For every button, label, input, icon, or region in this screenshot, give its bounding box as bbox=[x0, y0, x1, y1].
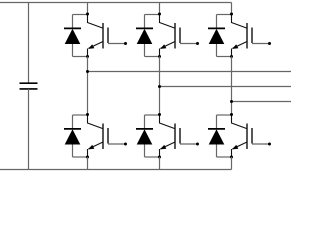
transistor Q3 gate bar bbox=[179, 28, 181, 44]
wire DC bus negative rail (bottom) bbox=[0, 169, 232, 171]
wire diode D4 cathode lead (vertical) bbox=[144, 115, 146, 129]
wire diode D1 cathode lead (vertical) bbox=[72, 15, 74, 29]
Q4 gate terminal dot bbox=[196, 143, 199, 146]
transistor Q1 gate bar bbox=[107, 28, 109, 44]
wire diode D5 anode to emitter node (horizontal) bbox=[217, 56, 232, 58]
transistor Q5 emitter arrowhead bbox=[232, 44, 238, 49]
wire leg C from positive rail to upper collector bbox=[231, 3, 233, 15]
wire diode D6 anode to emitter node (horizontal) bbox=[217, 156, 232, 158]
node Q1 emitter junction dot bbox=[86, 55, 89, 58]
transistor Q2 channel bar bbox=[102, 124, 104, 150]
transistor Q6 collector lead (vertical then diagonal to channel bar) bbox=[232, 115, 247, 129]
wire phase output C bbox=[232, 101, 292, 103]
transistor Q2 gate bar bbox=[107, 128, 109, 144]
wire diode D1 anode to emitter node (horizontal) bbox=[73, 56, 88, 58]
wire Q1 gate lead bbox=[108, 43, 126, 45]
transistor Q4 channel bar bbox=[174, 124, 176, 150]
Q2 gate terminal dot bbox=[124, 143, 127, 146]
diode D6 (filled triangle, anode below, pointing up) bbox=[209, 129, 225, 144]
wire Q3 collector node to diode D3 cathode (horizontal) bbox=[145, 14, 160, 16]
diode D1 (filled triangle, anode below, pointing up) bbox=[65, 29, 81, 44]
transistor Q5 gate bar bbox=[251, 28, 253, 44]
transistor Q1 emitter arrowhead bbox=[88, 44, 94, 49]
transistor Q2 emitter arrowhead bbox=[88, 145, 94, 150]
diode D2 cathode bar bbox=[64, 128, 81, 130]
transistor Q1 emitter lead (vertical to emitter node) bbox=[87, 49, 89, 57]
diode D1 cathode bar bbox=[64, 27, 81, 29]
Q3 gate terminal dot bbox=[196, 42, 199, 45]
node Q6 collector junction dot bbox=[230, 113, 233, 116]
wire leg C midpoint (upper emitter to lower collector) bbox=[231, 57, 233, 116]
wire leg C lower emitter to negative rail bbox=[231, 157, 233, 170]
wire diode D2 cathode lead (vertical) bbox=[72, 115, 74, 129]
transistor Q3 emitter diagonal bbox=[161, 42, 176, 49]
transistor Q4 emitter diagonal bbox=[161, 142, 176, 149]
transistor Q6 emitter lead (vertical to emitter node) bbox=[231, 149, 233, 157]
wire diode D5 anode lead (vertical) bbox=[216, 44, 218, 57]
node Q2 emitter junction dot bbox=[86, 156, 89, 159]
wire Q6 gate lead bbox=[252, 143, 270, 145]
wire capacitor C1 top lead bbox=[28, 3, 30, 84]
diode D2 (filled triangle, anode below, pointing up) bbox=[65, 129, 81, 144]
transistor Q6 emitter arrowhead bbox=[232, 145, 238, 150]
wire diode D4 anode lead (vertical) bbox=[144, 145, 146, 158]
diode D3 cathode bar bbox=[136, 27, 153, 29]
wire leg A midpoint (upper emitter to lower collector) bbox=[87, 57, 89, 116]
transistor Q2 emitter lead (vertical to emitter node) bbox=[87, 149, 89, 157]
transistor Q4 emitter lead (vertical to emitter node) bbox=[159, 149, 161, 157]
wire diode D6 anode lead (vertical) bbox=[216, 145, 218, 158]
node Q2 collector junction dot bbox=[86, 113, 89, 116]
transistor Q6 channel bar bbox=[246, 124, 248, 150]
transistor Q3 emitter arrowhead bbox=[160, 44, 166, 49]
transistor Q5 channel bar bbox=[246, 23, 248, 49]
node Q4 emitter junction dot bbox=[158, 156, 161, 159]
wire Q4 collector node to diode D4 cathode (horizontal) bbox=[145, 114, 160, 116]
wire diode D1 anode lead (vertical) bbox=[72, 44, 74, 57]
node Q5 emitter junction dot bbox=[230, 55, 233, 58]
transistor Q4 gate bar bbox=[179, 128, 181, 144]
diode D5 cathode bar bbox=[208, 27, 225, 29]
wire leg A lower emitter to negative rail bbox=[87, 157, 89, 170]
wire phase output B bbox=[160, 86, 292, 88]
transistor Q5 emitter diagonal bbox=[233, 42, 248, 49]
node Q6 emitter junction dot bbox=[230, 156, 233, 159]
transistor Q1 channel bar bbox=[102, 23, 104, 49]
wire diode D5 cathode lead (vertical) bbox=[216, 15, 218, 29]
transistor Q4 emitter arrowhead bbox=[160, 145, 166, 150]
wire Q2 gate lead bbox=[108, 143, 126, 145]
wire diode D2 anode lead (vertical) bbox=[72, 145, 74, 158]
transistor Q3 emitter lead (vertical to emitter node) bbox=[159, 49, 161, 57]
transistor Q2 collector lead (vertical then diagonal to channel bar) bbox=[88, 115, 103, 129]
transistor Q1 emitter diagonal bbox=[89, 42, 104, 49]
wire leg A from positive rail to upper collector bbox=[87, 3, 89, 15]
Q5 gate terminal dot bbox=[268, 42, 271, 45]
wire diode D3 anode to emitter node (horizontal) bbox=[145, 56, 160, 58]
wire leg B lower emitter to negative rail bbox=[159, 157, 161, 170]
diode D5 (filled triangle, anode below, pointing up) bbox=[209, 29, 225, 44]
transistor Q1 collector lead (vertical then diagonal to channel bar) bbox=[88, 14, 103, 28]
wire diode D3 anode lead (vertical) bbox=[144, 44, 146, 57]
transistor Q2 emitter diagonal bbox=[89, 142, 104, 149]
Q6 gate terminal dot bbox=[268, 143, 271, 146]
capacitor C1 bottom plate bbox=[20, 88, 38, 90]
node phase B tap dot bbox=[158, 85, 161, 88]
node phase C tap dot bbox=[230, 100, 233, 103]
wire Q6 collector node to diode D6 cathode (horizontal) bbox=[217, 114, 232, 116]
wire leg B midpoint (upper emitter to lower collector) bbox=[159, 57, 161, 116]
node Q3 emitter junction dot bbox=[158, 55, 161, 58]
wire Q3 gate lead bbox=[180, 43, 198, 45]
wire diode D4 anode to emitter node (horizontal) bbox=[145, 156, 160, 158]
node Q3 collector junction dot bbox=[158, 13, 161, 16]
node Q5 collector junction dot bbox=[230, 13, 233, 16]
wire phase output A bbox=[88, 71, 292, 73]
wire diode D2 anode to emitter node (horizontal) bbox=[73, 156, 88, 158]
wire DC bus positive rail (top) bbox=[0, 2, 232, 4]
capacitor C1 top plate bbox=[20, 82, 38, 84]
wire leg B from positive rail to upper collector bbox=[159, 3, 161, 15]
node Q1 collector junction dot bbox=[86, 13, 89, 16]
wire capacitor C1 bottom lead bbox=[28, 89, 30, 170]
diode D3 (filled triangle, anode below, pointing up) bbox=[137, 29, 153, 44]
wire Q1 collector node to diode D1 cathode (horizontal) bbox=[73, 14, 88, 16]
diode D4 (filled triangle, anode below, pointing up) bbox=[137, 129, 153, 144]
diode D6 cathode bar bbox=[208, 128, 225, 130]
wire Q2 collector node to diode D2 cathode (horizontal) bbox=[73, 114, 88, 116]
transistor Q6 emitter diagonal bbox=[233, 142, 248, 149]
node phase A tap dot bbox=[86, 70, 89, 73]
transistor Q4 collector lead (vertical then diagonal to channel bar) bbox=[160, 115, 175, 129]
transistor Q5 emitter lead (vertical to emitter node) bbox=[231, 49, 233, 57]
wire diode D3 cathode lead (vertical) bbox=[144, 15, 146, 29]
wire Q4 gate lead bbox=[180, 143, 198, 145]
wire diode D6 cathode lead (vertical) bbox=[216, 115, 218, 129]
transistor Q3 collector lead (vertical then diagonal to channel bar) bbox=[160, 14, 175, 28]
Q1 gate terminal dot bbox=[124, 42, 127, 45]
wire Q5 collector node to diode D5 cathode (horizontal) bbox=[217, 14, 232, 16]
wire Q5 gate lead bbox=[252, 43, 270, 45]
transistor Q5 collector lead (vertical then diagonal to channel bar) bbox=[232, 14, 247, 28]
transistor Q6 gate bar bbox=[251, 128, 253, 144]
diode D4 cathode bar bbox=[136, 128, 153, 130]
node Q4 collector junction dot bbox=[158, 113, 161, 116]
transistor Q3 channel bar bbox=[174, 23, 176, 49]
